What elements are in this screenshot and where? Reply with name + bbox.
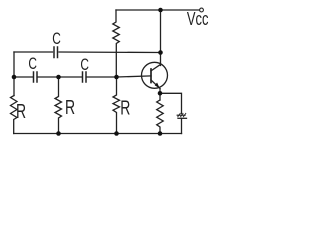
svg-text:C: C (28, 55, 37, 74)
wire top rail (116, 9, 200, 11)
wire left vertical (13, 52, 15, 96)
wire ladder row (14, 76, 33, 78)
resistor R2 (55, 77, 62, 134)
capacitor C2 (82, 72, 84, 82)
svg-text:R: R (16, 99, 26, 122)
wire base lead (87, 76, 152, 77)
transistor Q1 circle (142, 62, 168, 88)
capacitor C1 (33, 72, 35, 82)
resistor R3 (113, 77, 120, 134)
resistor Rbias (113, 10, 120, 77)
svg-text:C: C (52, 30, 61, 49)
wire collector vertical (160, 10, 162, 66)
wire emitter to right branch (160, 93, 182, 113)
transistor Q1 emitter arrow (155, 83, 160, 89)
node emitter junction (158, 91, 163, 96)
transistor Q1 collector diagonal (151, 64, 161, 71)
wire CE bottom (181, 118, 183, 133)
node ground junction R3 (114, 131, 119, 136)
resistor R1 (11, 96, 18, 134)
node base junction (114, 75, 119, 80)
capacitor C3 (53, 47, 55, 58)
resistor RE (157, 100, 164, 134)
capacitor CE (177, 114, 185, 116)
svg-text:R: R (65, 95, 75, 118)
wire (38, 76, 83, 78)
wire feedback line right (59, 51, 161, 54)
svg-text:Vcc: Vcc (187, 10, 209, 30)
node ground junction R2 (56, 131, 61, 136)
node ground junction RE (158, 131, 163, 136)
wire bottom rail (14, 133, 182, 135)
svg-text:R: R (120, 96, 130, 119)
transistor Q1 base bar (150, 69, 152, 83)
node feedback-collector junction (158, 50, 163, 55)
wire feedback line top (14, 51, 53, 53)
node A junction (12, 75, 17, 80)
node collector-rail junction (158, 8, 163, 13)
wire emitter vertical (159, 89, 161, 101)
transistor Q1 emitter diagonal (151, 80, 160, 89)
node Vcc terminal (200, 8, 204, 12)
node B junction (56, 75, 61, 80)
svg-text:C: C (80, 56, 89, 75)
